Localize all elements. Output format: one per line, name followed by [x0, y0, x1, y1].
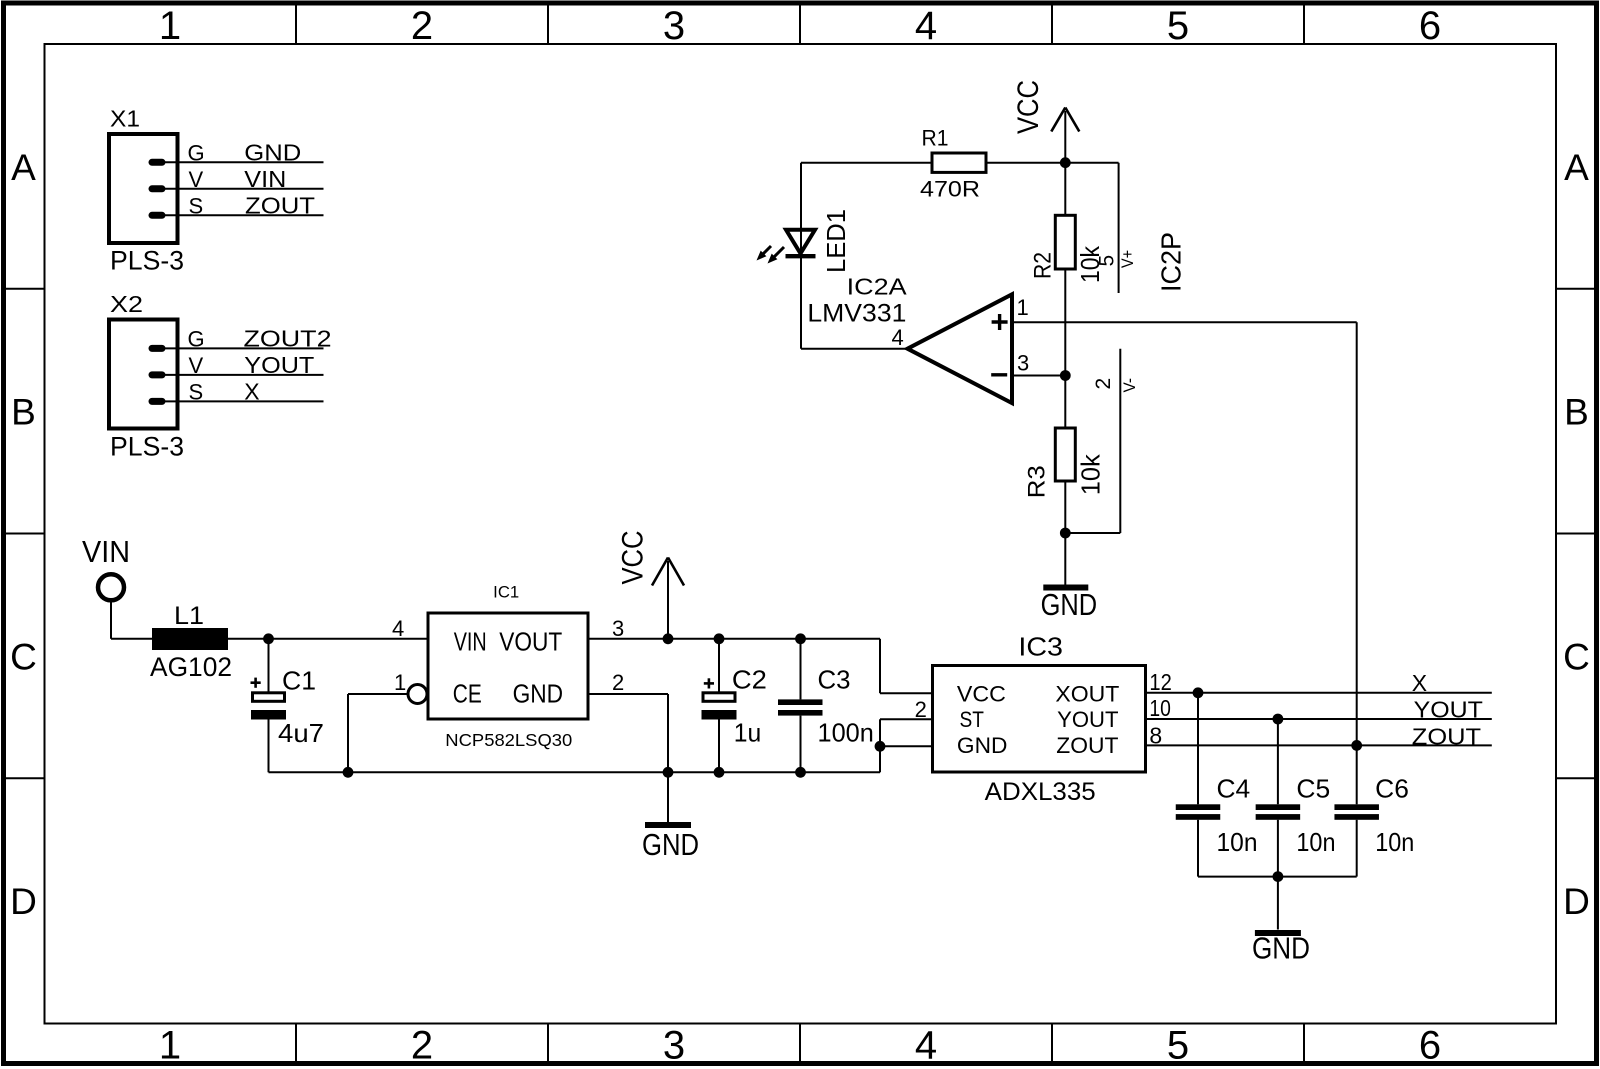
svg-text:100n: 100n [818, 718, 874, 748]
pin number 1 (IC2A +) [1017, 295, 1029, 320]
svg-text:1: 1 [1017, 295, 1029, 320]
label L1 [174, 602, 204, 630]
wire IC2A pin3 to divider [1012, 375, 1065, 377]
wire VCC to IC2P V+ pin [1065, 162, 1118, 164]
svg-text:CE: CE [453, 678, 482, 708]
label GND (IC1) [642, 827, 699, 862]
svg-text:C1: C1 [282, 666, 316, 696]
pin number 4 (IC1) [392, 616, 404, 641]
svg-text:10k: 10k [1075, 245, 1105, 283]
svg-text:X: X [1412, 670, 1427, 696]
svg-text:X2: X2 [110, 291, 143, 317]
wire IC1 VOUT to VCC junction [588, 638, 668, 640]
svg-text:GND: GND [244, 140, 301, 166]
power VCC (comparator) [1051, 108, 1079, 163]
pin name ZOUT (IC3) [1056, 733, 1118, 758]
wire IC3 GND pin [880, 745, 933, 747]
connector X1 [109, 134, 178, 243]
pin name V- [1121, 378, 1139, 393]
pin name VOUT (IC1) [499, 627, 562, 657]
svg-text:10n: 10n [1375, 827, 1414, 857]
svg-text:C: C [10, 636, 37, 677]
pin name S (X2) [189, 380, 204, 405]
value 10k (R3) [1076, 453, 1106, 495]
junction VCC node [1060, 157, 1071, 168]
op-amp IC2A [908, 294, 1013, 403]
wire IC3 ground to rail [879, 746, 881, 772]
svg-text:IC1: IC1 [493, 584, 519, 602]
power VCC (IC1) [652, 558, 684, 639]
junction C4 top [1193, 687, 1204, 698]
svg-text:VCC: VCC [957, 682, 1006, 707]
terminal VIN [98, 574, 124, 600]
svg-text:2: 2 [411, 1024, 433, 1068]
capacitor C5 [1256, 719, 1301, 877]
label C3 [818, 665, 851, 695]
junction divider mid [1060, 370, 1071, 381]
label C5 [1296, 774, 1330, 804]
svg-text:2: 2 [915, 697, 927, 722]
value ADXL335 [985, 778, 1096, 806]
ground GND (IC1) [645, 822, 691, 828]
svg-text:ZOUT2: ZOUT2 [244, 326, 332, 352]
svg-text:NCP582LSQ30: NCP582LSQ30 [445, 730, 572, 750]
svg-text:IC2A: IC2A [847, 274, 908, 300]
svg-text:C2: C2 [732, 665, 767, 695]
net label YOUT [244, 352, 314, 378]
svg-text:ADXL335: ADXL335 [985, 778, 1096, 806]
wire X2-S net X [165, 400, 324, 402]
wire X2-V net YOUT [165, 374, 324, 376]
net label X (XOUT) [1412, 670, 1427, 696]
svg-text:4u7: 4u7 [278, 718, 324, 748]
label VIN [82, 534, 130, 569]
svg-text:LMV331: LMV331 [807, 300, 906, 328]
wire R2 to divider mid [1064, 269, 1066, 376]
junction C2 top [714, 633, 725, 644]
pin name XOUT (IC3) [1055, 682, 1119, 707]
IC IC3 accelerometer [933, 666, 1146, 773]
pin name ST (IC3) [960, 707, 984, 732]
pin name V (X2) [189, 353, 204, 378]
value PLS-3 (X1) [110, 246, 184, 276]
svg-text:A: A [1564, 147, 1589, 188]
wire R3 to ground node [1064, 481, 1066, 533]
ground rail wire [269, 771, 881, 773]
label IC2A [847, 274, 908, 300]
label IC3 [1018, 631, 1063, 661]
resistor R3 [1055, 428, 1075, 481]
svg-text:1: 1 [159, 1024, 181, 1068]
wire X1-S net ZOUT [165, 214, 324, 216]
wire CE pin to ground rail [348, 694, 408, 772]
junction C3 bottom [795, 767, 806, 778]
svg-text:4: 4 [915, 4, 937, 48]
svg-text:10k: 10k [1076, 453, 1106, 495]
svg-text:12: 12 [1149, 669, 1171, 695]
wire IC1 pin2 to ground [588, 694, 668, 772]
ground GND (divider) [1043, 585, 1088, 591]
net label X [244, 379, 259, 405]
svg-text:R2: R2 [1030, 252, 1057, 279]
wire VIN to L1 [111, 600, 152, 639]
label X1 [110, 106, 140, 132]
wire to ground symbol (IC1) [667, 772, 669, 822]
inductor L1 [152, 628, 228, 650]
label VCC (IC1) [617, 531, 650, 585]
svg-text:VIN: VIN [244, 166, 286, 192]
pin number 5 (V+) [1096, 255, 1119, 267]
wire VCC to R2 [1064, 163, 1066, 216]
IC IC1 regulator [408, 613, 588, 719]
pin number 10 (YOUT) [1149, 695, 1171, 721]
svg-text:ST: ST [960, 707, 984, 732]
svg-text:1u: 1u [734, 718, 762, 748]
pin number 8 (ZOUT) [1149, 723, 1162, 749]
svg-text:5: 5 [1167, 4, 1189, 48]
label R2 [1030, 252, 1057, 279]
capacitor C3 [778, 639, 823, 773]
svg-text:VOUT: VOUT [499, 627, 562, 657]
svg-text:3: 3 [663, 1024, 685, 1068]
value 4u7 [278, 718, 324, 748]
svg-text:GND: GND [1252, 931, 1310, 966]
svg-text:6: 6 [1419, 4, 1441, 48]
svg-text:2: 2 [1092, 378, 1115, 390]
svg-text:B: B [11, 392, 36, 433]
svg-text:X1: X1 [110, 106, 140, 132]
pin number 3 (IC2A -) [1017, 351, 1029, 376]
value 1u [734, 718, 762, 748]
svg-text:5: 5 [1167, 1024, 1189, 1068]
svg-text:3: 3 [1017, 351, 1029, 376]
junction IC1 GND / rail [663, 767, 674, 778]
junction ST/GND (IC3) [875, 741, 886, 752]
net label YOUT (right) [1414, 697, 1483, 723]
pin V+ (IC2P) [1118, 163, 1120, 293]
svg-text:PLS-3: PLS-3 [110, 432, 184, 462]
wire XOUT net X [1146, 692, 1492, 694]
svg-text:470R: 470R [920, 177, 980, 202]
wire ground node to V- pin [1065, 532, 1120, 534]
wire ST to ground junction [880, 719, 933, 746]
wire YOUT net YOUT [1146, 718, 1492, 720]
pin number 3 (IC1) [612, 616, 624, 641]
junction R3/V- node [1060, 528, 1071, 539]
wire X2-G net ZOUT2 [165, 347, 324, 349]
net label ZOUT (right) [1412, 724, 1481, 750]
pin number 2 (V-) [1092, 378, 1115, 390]
svg-text:GND: GND [1041, 587, 1098, 622]
wire IC2A pin1 to net X [1012, 322, 1357, 745]
value 10k (R2) [1075, 245, 1105, 283]
svg-text:6: 6 [1419, 1024, 1441, 1068]
svg-text:ZOUT: ZOUT [245, 192, 315, 218]
pin number 4 (IC2A out) [892, 325, 904, 350]
junction CE/ground rail [343, 767, 354, 778]
junction C1 top [263, 633, 274, 644]
wire VCC rail to IC3 [668, 639, 933, 693]
svg-text:LED1: LED1 [821, 209, 851, 273]
wire X1-G net GND [165, 161, 324, 163]
svg-text:C6: C6 [1375, 774, 1409, 804]
svg-text:YOUT: YOUT [1057, 707, 1118, 732]
net label GND [244, 140, 301, 166]
svg-text:PLS-3: PLS-3 [110, 246, 184, 276]
svg-text:YOUT: YOUT [244, 352, 314, 378]
resistor R2 [1055, 215, 1075, 269]
ground rail (C4-C6) [1198, 876, 1357, 878]
value PLS-3 (X2) [110, 432, 184, 462]
svg-text:C4: C4 [1217, 774, 1251, 804]
svg-text:D: D [1563, 881, 1590, 922]
svg-text:4: 4 [915, 1024, 937, 1068]
svg-text:GND: GND [513, 678, 564, 708]
wire divider mid to R3 [1064, 376, 1066, 429]
label C1 [282, 666, 316, 696]
pin number 12 (XOUT) [1149, 669, 1171, 695]
svg-text:2: 2 [612, 670, 624, 695]
ground GND (C4-C6) [1255, 930, 1301, 936]
pin name VIN (IC1) [454, 627, 487, 657]
pin name V (X1) [189, 167, 204, 192]
svg-text:VCC: VCC [617, 531, 650, 585]
pin name G (X2) [188, 327, 205, 352]
svg-text:D: D [10, 881, 37, 922]
svg-text:GND: GND [957, 733, 1008, 758]
label IC2P [1156, 232, 1187, 292]
connector X2 [109, 320, 178, 429]
svg-text:3: 3 [663, 4, 685, 48]
LED LED1 [757, 230, 816, 264]
value 10n (C6) [1375, 827, 1414, 857]
net label ZOUT2 [244, 326, 332, 352]
svg-text:2: 2 [411, 4, 433, 48]
value 100n [818, 718, 874, 748]
capacitor C1 [251, 639, 287, 773]
pin name S (X1) [189, 193, 204, 218]
value NCP582LSQ30 [445, 730, 572, 750]
wire X1-V net VIN [165, 188, 324, 190]
svg-text:IC3: IC3 [1018, 631, 1063, 661]
wire to ground symbol (C4-C6) [1277, 877, 1279, 930]
svg-text:10n: 10n [1217, 827, 1258, 857]
svg-text:ZOUT: ZOUT [1412, 724, 1481, 750]
svg-text:4: 4 [392, 616, 404, 641]
svg-text:YOUT: YOUT [1414, 697, 1483, 723]
svg-text:10: 10 [1149, 695, 1171, 721]
svg-text:C3: C3 [818, 665, 851, 695]
label LED1 [821, 209, 851, 273]
value 470R [920, 177, 980, 202]
wire L1 to IC1 VIN pin [228, 638, 428, 640]
capacitor C4 [1176, 693, 1221, 877]
svg-text:1: 1 [159, 4, 181, 48]
svg-text:C: C [1563, 636, 1590, 677]
svg-text:GND: GND [642, 827, 699, 862]
pin name CE (IC1) [453, 678, 482, 708]
label R1 [922, 126, 949, 151]
net label ZOUT [245, 192, 315, 218]
label R3 [1024, 465, 1051, 498]
wire to ground symbol (divider) [1064, 533, 1066, 585]
svg-text:ZOUT: ZOUT [1056, 733, 1118, 758]
svg-text:VCC: VCC [1012, 80, 1045, 134]
svg-text:XOUT: XOUT [1055, 682, 1119, 707]
junction C2 bottom [714, 767, 725, 778]
wire LED1 cathode to IC2A output [801, 163, 906, 349]
svg-text:V-: V- [1121, 378, 1139, 393]
pin name G (X1) [188, 141, 205, 166]
pin name GND (IC3) [957, 733, 1008, 758]
pin number 2 (IC3 ST) [915, 697, 927, 722]
capacitor C2 [702, 639, 737, 773]
svg-text:IC2P: IC2P [1156, 232, 1187, 292]
pin name GND (IC1) [513, 678, 564, 708]
value 10n (C4) [1217, 827, 1258, 857]
svg-text:B: B [1564, 392, 1589, 433]
svg-text:VIN: VIN [454, 627, 487, 657]
label GND (C4-C6) [1252, 931, 1310, 966]
value AG102 [150, 652, 232, 682]
svg-text:AG102: AG102 [150, 652, 232, 682]
junction C5 bottom [1273, 871, 1284, 882]
svg-text:A: A [11, 147, 36, 188]
pin name YOUT (IC3) [1057, 707, 1118, 732]
label C4 [1217, 774, 1251, 804]
svg-text:R3: R3 [1024, 465, 1051, 498]
label X2 [110, 291, 143, 317]
net label VIN [244, 166, 286, 192]
svg-text:V+: V+ [1119, 250, 1137, 268]
svg-text:C5: C5 [1296, 774, 1330, 804]
junction VCC (IC1 out) [663, 633, 674, 644]
junction C5 top [1273, 714, 1284, 725]
svg-text:3: 3 [612, 616, 624, 641]
svg-text:R1: R1 [922, 126, 949, 151]
svg-text:VIN: VIN [82, 534, 130, 569]
pin number 2 (IC1) [612, 670, 624, 695]
svg-text:L1: L1 [174, 602, 204, 630]
svg-text:10n: 10n [1296, 827, 1335, 857]
pin number 1 (IC1) [394, 670, 406, 695]
svg-text:X: X [244, 379, 259, 405]
junction C3 top [795, 633, 806, 644]
label C6 [1375, 774, 1409, 804]
pin name V+ [1119, 250, 1137, 268]
resistor R1 [932, 153, 986, 172]
svg-text:1: 1 [394, 670, 406, 695]
label C2 [732, 665, 767, 695]
capacitor C6 [1334, 745, 1379, 876]
label GND (divider) [1041, 587, 1098, 622]
wire R1 to VCC junction [986, 162, 1065, 164]
junction C6 top / net X link [1351, 740, 1362, 751]
wire LED1 anode to R1 [801, 162, 932, 164]
label VCC (comparator) [1012, 80, 1045, 134]
value LMV331 [807, 300, 906, 328]
label IC1 [493, 584, 519, 602]
wire ZOUT net ZOUT [1146, 744, 1492, 746]
svg-text:4: 4 [892, 325, 904, 350]
value 10n (C5) [1296, 827, 1335, 857]
pin V- (IC2P) [1119, 349, 1121, 533]
pin name VCC (IC3) [957, 682, 1006, 707]
